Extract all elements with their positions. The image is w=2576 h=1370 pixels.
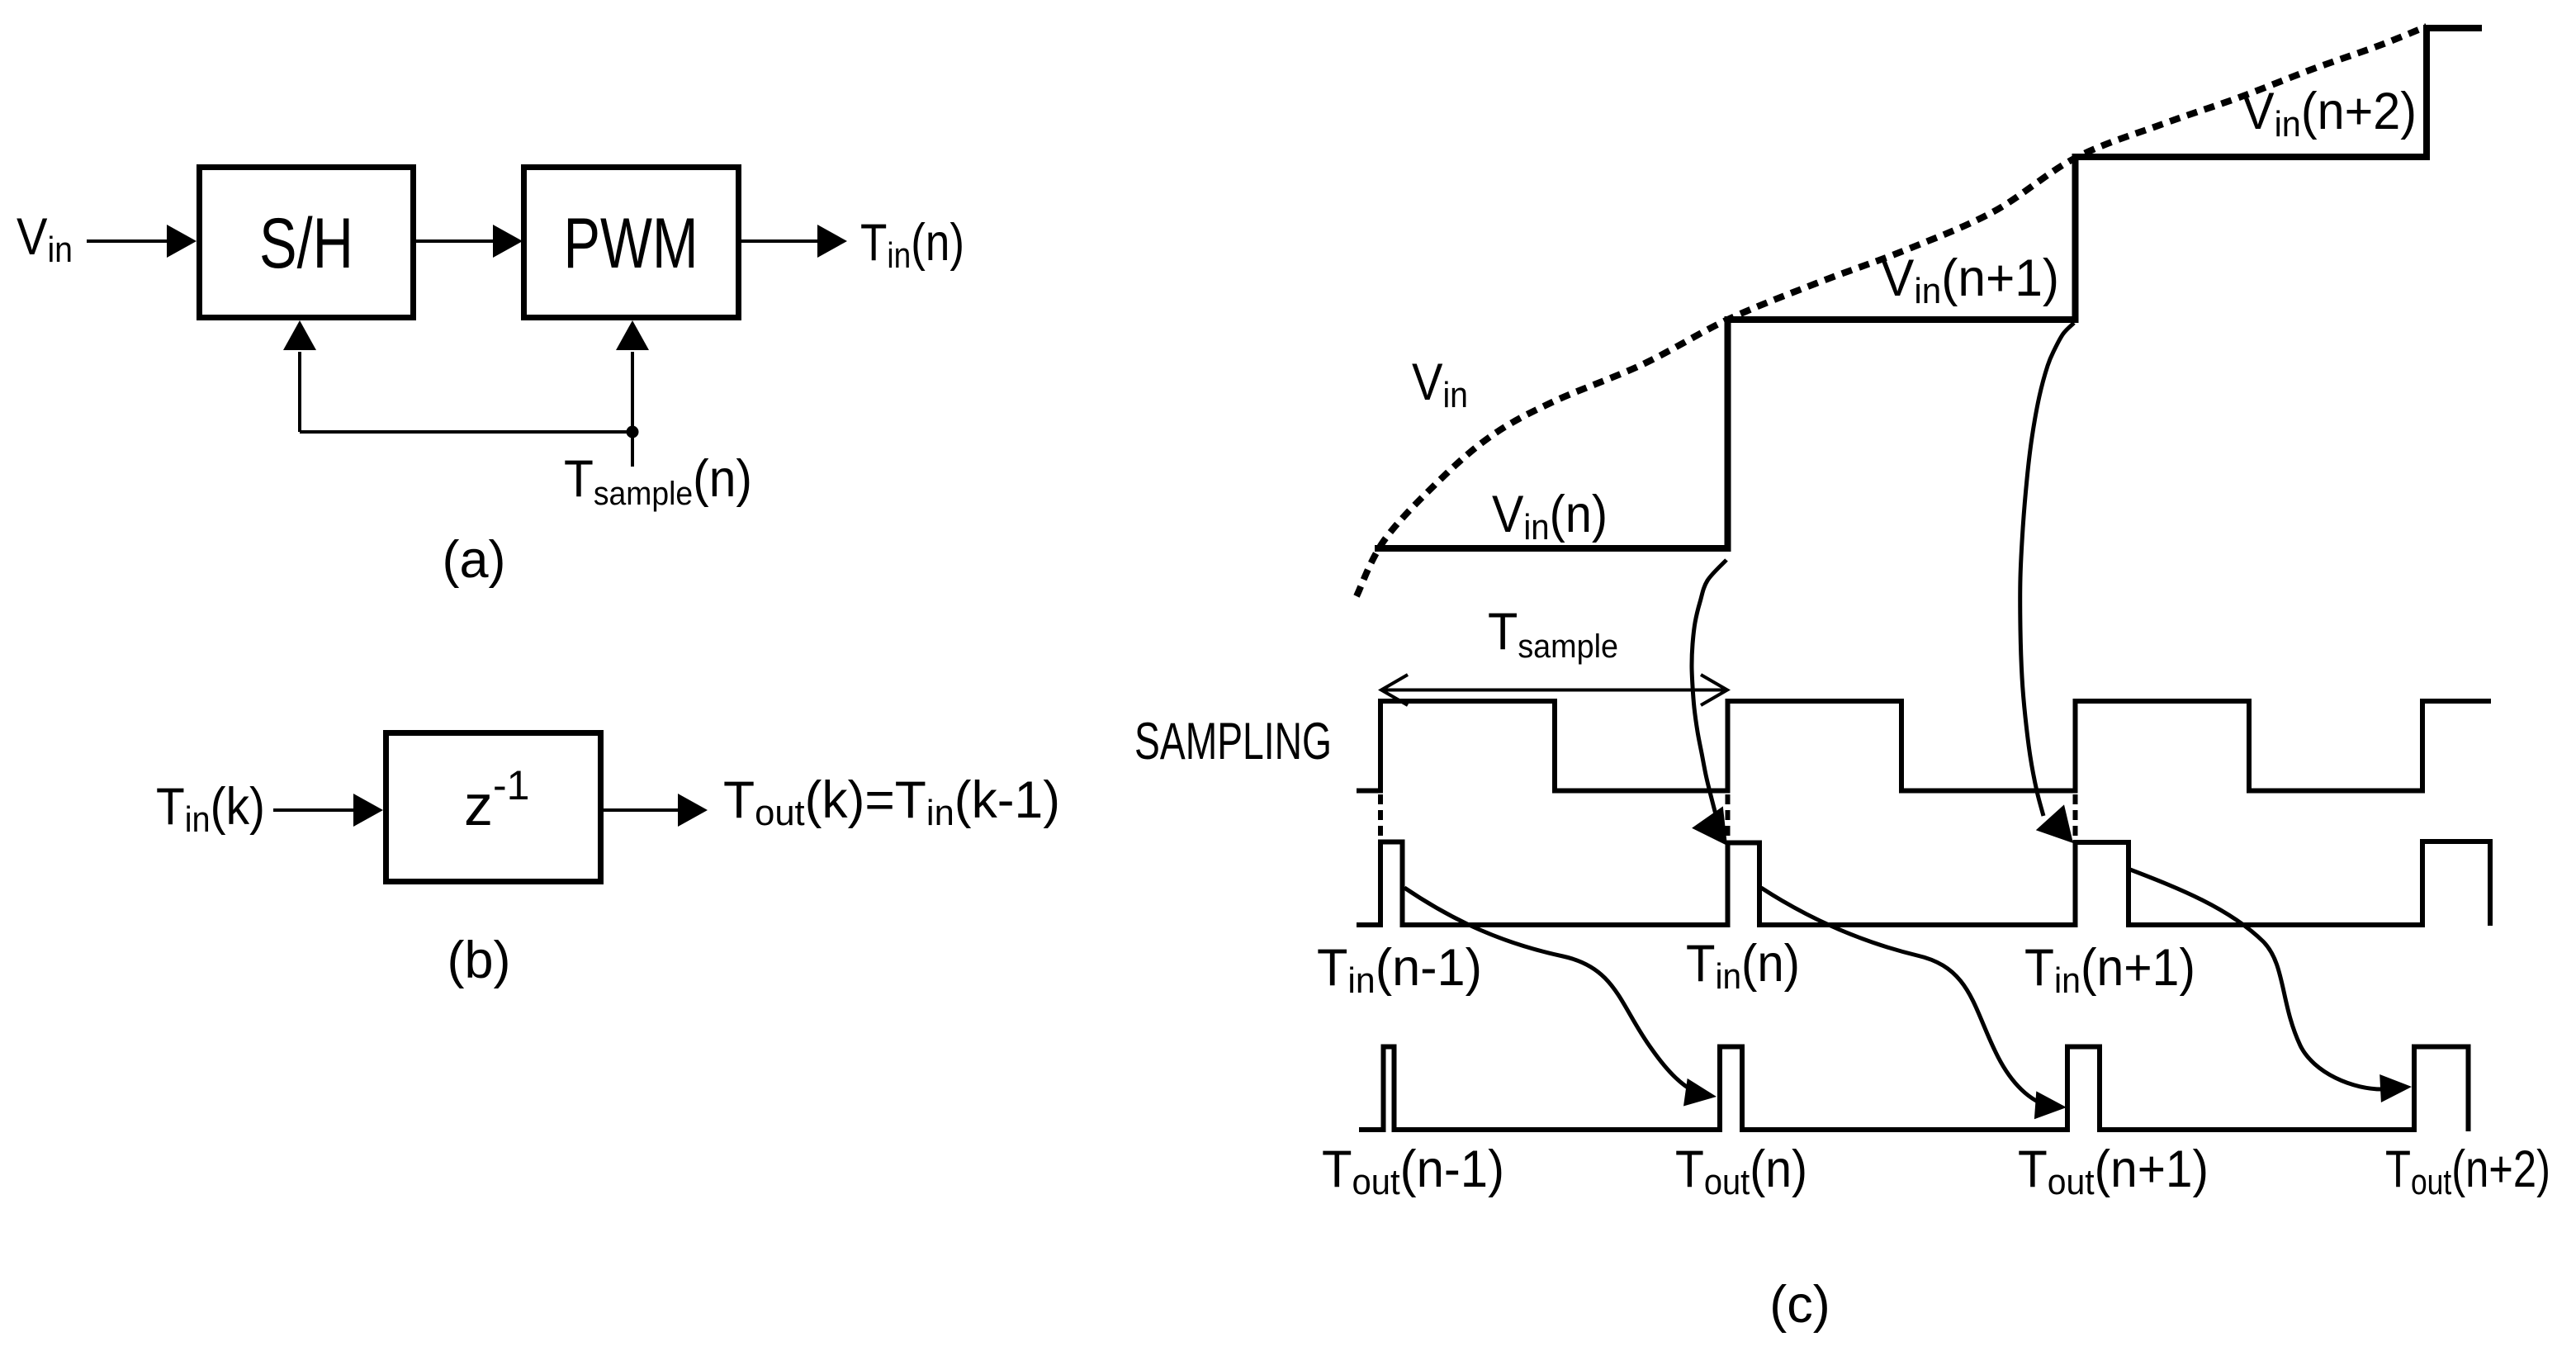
staircase sampled Vin levels [1375, 28, 2482, 548]
svg-text:(a): (a) [443, 531, 506, 589]
arrow Tin(n-1) to Tout(n) delayed [1404, 888, 1702, 1095]
curve Vin dashed analog input [1357, 26, 2427, 596]
wire Tin PWM waveform [1357, 841, 2490, 926]
svg-text:(c): (c) [1769, 1276, 1830, 1334]
wire dashed sample instant n [1726, 794, 1731, 839]
wire z-1 output with arrow [604, 808, 680, 812]
wire Tsample double arrow [1384, 689, 1725, 692]
svg-text:S/H: S/H [259, 204, 353, 283]
svg-text:Tin(n): Tin(n) [1686, 935, 1800, 997]
svg-text:Vin(n): Vin(n) [1492, 486, 1608, 548]
svg-text:SAMPLING: SAMPLING [1134, 713, 1332, 770]
block PWM [524, 168, 739, 318]
svg-text:Tout(n-1): Tout(n-1) [1322, 1140, 1504, 1202]
wire Tout PWM waveform [1359, 1047, 2469, 1132]
wire Tsample horizontal run [300, 430, 632, 434]
wire PWM output with arrow [741, 239, 819, 243]
svg-text:Vin(n+1): Vin(n+1) [1881, 249, 2059, 311]
wire dashed sample instant n+1 [2073, 794, 2078, 839]
wire Tsample stub [631, 432, 634, 467]
wire SAMPLING clock waveform [1357, 701, 2491, 791]
block z^-1 delay [386, 733, 601, 882]
block S/H [200, 168, 414, 318]
svg-text:Tin(n+1): Tin(n+1) [2024, 939, 2195, 1001]
wire Tsample to S/H clock arrow [298, 352, 301, 432]
wire Tin(k) to z-1 with arrow [273, 808, 355, 812]
arrow Tin(n) to Tout(n+1) delayed [1761, 888, 2051, 1107]
wire S/H to PWM with arrow [416, 239, 495, 243]
svg-text:(b): (b) [447, 932, 511, 989]
svg-text:Tout(n+1): Tout(n+1) [2018, 1140, 2209, 1202]
wire Vin to S/H with arrow [87, 239, 170, 243]
arrow staircase Vin(n+1) to Tin(n+1) pulse [2020, 323, 2074, 816]
svg-text:Tout(n+2): Tout(n+2) [2385, 1140, 2550, 1202]
junction dot [627, 426, 639, 438]
arrow Tin(n+1) to Tout(n+2) delayed [2130, 870, 2384, 1089]
svg-text:Vin(n+2): Vin(n+2) [2242, 83, 2417, 145]
arrow staircase Vin(n) to Tin(n) pulse [1692, 560, 1726, 818]
svg-text:Tin(k): Tin(k) [156, 778, 265, 840]
wire Tsample to PWM clock arrow [631, 352, 634, 432]
svg-text:PWM: PWM [564, 204, 698, 283]
svg-text:Tin(n): Tin(n) [860, 214, 964, 276]
svg-text:Tin(n-1): Tin(n-1) [1317, 939, 1482, 1001]
wire dashed sample instant n-1 [1378, 794, 1383, 839]
